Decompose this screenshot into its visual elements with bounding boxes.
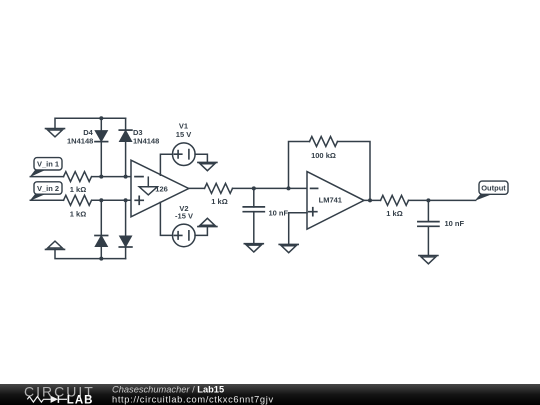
wire R5 to output flag	[409, 199, 476, 201]
wire V2 to ground	[195, 227, 207, 236]
voltage source V2	[173, 224, 196, 247]
diode D1	[95, 236, 108, 247]
voltage source V1	[173, 143, 196, 166]
op-amp OA1	[131, 160, 189, 217]
svg-text:126: 126	[155, 185, 168, 194]
wire D3 column	[125, 118, 127, 176]
svg-text:10 nF: 10 nF	[269, 209, 289, 218]
footer bar	[0, 384, 540, 405]
junction dots	[99, 116, 430, 260]
svg-text:-15 V: -15 V	[175, 212, 193, 221]
op-amp OA1 plus pin	[135, 196, 143, 204]
svg-text:Output: Output	[481, 184, 506, 193]
resistor R4	[310, 137, 338, 147]
wire V1 to ground	[195, 154, 207, 162]
wire D4 column	[100, 118, 102, 176]
capacitor C2	[418, 222, 439, 227]
resistor R5	[381, 195, 409, 205]
wire feedback down to output	[338, 142, 371, 201]
wire top ground rail	[55, 118, 126, 128]
svg-text:1N4148: 1N4148	[67, 136, 93, 145]
flag Output	[475, 181, 508, 201]
ground GND7 at C2	[419, 256, 438, 264]
wire V_in1 row	[30, 176, 132, 178]
resistor R3	[205, 183, 233, 193]
svg-text:http://circuitlab.com/ctkxc6nn: http://circuitlab.com/ctkxc6nnt7gjv	[112, 395, 274, 405]
ground GND5 at C1	[244, 244, 263, 252]
svg-text:LAB: LAB	[67, 395, 94, 405]
op-amp U1 plus pin	[309, 208, 317, 216]
wire feedback up	[289, 142, 310, 189]
wire OA1 output	[189, 187, 205, 189]
wire C2 to ground	[427, 226, 429, 255]
wire V1 to op-amp	[160, 154, 172, 175]
footer logo resistor-diode doodle	[27, 396, 67, 403]
wire V2 to op-amp	[160, 202, 172, 235]
wire C1 to ground	[253, 212, 255, 244]
svg-text:10 nF: 10 nF	[445, 219, 465, 228]
svg-text:1N4148: 1N4148	[133, 136, 159, 145]
flag V_in 2	[30, 182, 63, 201]
svg-text:Chaseschumacher / Lab15: Chaseschumacher / Lab15	[112, 384, 224, 394]
svg-text:1 kΩ: 1 kΩ	[211, 197, 227, 206]
svg-text:LM741: LM741	[319, 196, 342, 205]
ground GND6 at OA2 plus	[279, 244, 298, 252]
wire bottom diode column right	[125, 200, 127, 258]
op-amp U1 LM741	[307, 172, 364, 230]
resistor R1	[64, 172, 92, 182]
diode D3	[119, 130, 132, 141]
ground GND2 bottom-left	[46, 241, 65, 249]
wire C1 top	[253, 188, 255, 207]
wire R3 to OA2 minus	[233, 187, 308, 189]
op-amp OA1 minus pin	[135, 176, 143, 178]
diode D4	[95, 131, 108, 142]
flag V_in 1	[30, 158, 63, 178]
svg-text:1 kΩ: 1 kΩ	[70, 209, 86, 218]
wire C2 top	[427, 200, 429, 221]
capacitor C1	[243, 207, 264, 212]
svg-text:V1: V1	[179, 122, 188, 131]
wire bottom diode column left	[100, 200, 102, 258]
wire bottom ground rail	[55, 249, 126, 258]
ground GND3 at V1	[198, 162, 217, 170]
svg-text:V_in 1: V_in 1	[37, 160, 59, 169]
wire OA2 plus to ground	[289, 213, 307, 245]
ground GND1 top-left	[46, 129, 65, 137]
svg-text:V_in 2: V_in 2	[37, 184, 59, 193]
op-amp OA1 internal ground arrow	[139, 177, 157, 195]
diode D2	[119, 236, 132, 247]
wire V_in2 row	[30, 199, 132, 201]
wire OA2 output	[364, 199, 381, 201]
ground GND4 at V2	[198, 218, 217, 226]
op-amp U1 minus pin	[311, 187, 318, 189]
svg-text:1 kΩ: 1 kΩ	[70, 185, 86, 194]
svg-text:1 kΩ: 1 kΩ	[386, 209, 402, 218]
resistor R2	[64, 195, 92, 205]
svg-text:100 kΩ: 100 kΩ	[311, 151, 336, 160]
svg-text:15 V: 15 V	[176, 130, 191, 139]
